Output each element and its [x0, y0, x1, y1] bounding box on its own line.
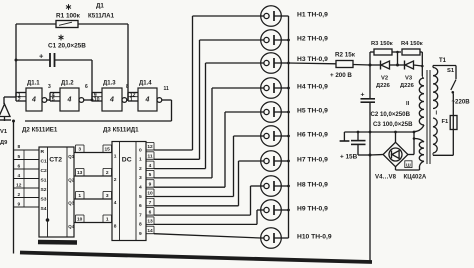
- svg-text:Q1: Q1: [68, 154, 74, 159]
- svg-text:II: II: [406, 101, 410, 107]
- wire: +15V bus / winding tap: [344, 131, 414, 133]
- svg-text:DC: DC: [122, 157, 132, 164]
- svg-text:С3 100,0×25В: С3 100,0×25В: [373, 121, 413, 128]
- wire: lamp H1 to anode bus: [281, 15, 288, 17]
- svg-text:V1: V1: [0, 129, 8, 135]
- wire: bridge right to winding riser: [408, 154, 414, 156]
- svg-text:Д1.4: Д1.4: [139, 81, 152, 87]
- junction: bus tap H3: [287, 62, 290, 65]
- wire: lamp H2 to anode bus: [281, 39, 288, 41]
- svg-text:12: 12: [16, 183, 22, 189]
- junction: C3 top tap: [357, 131, 360, 134]
- svg-text:Н2 ТН-0,9: Н2 ТН-0,9: [297, 36, 328, 43]
- svg-text:Н6 ТН-0,9: Н6 ТН-0,9: [297, 132, 328, 139]
- svg-text:+ 15В: + 15В: [340, 154, 358, 161]
- smudge bar under D2 box: [38, 240, 77, 245]
- wire: mid tap down to diode row: [397, 52, 399, 65]
- wire: bottom common ground band (thick): [20, 253, 372, 263]
- svg-text:С1: С1: [41, 159, 48, 165]
- wire: R3 to R4: [392, 51, 401, 53]
- junction: C1 tap node: [15, 59, 18, 62]
- wire: C1 right plate to coupling vertical: [55, 59, 93, 61]
- wire: to V1 anode: [3, 97, 5, 104]
- svg-text:С1 20,0×25В: С1 20,0×25В: [48, 43, 86, 50]
- terminal: +15V output bar: [340, 140, 350, 142]
- svg-text:Н1 ТН-0,9: Н1 ТН-0,9: [297, 12, 328, 19]
- svg-text:S3: S3: [41, 197, 47, 203]
- wire: long clock/feedback wire to V1 and counter bus: [25, 120, 172, 122]
- wire: common rail down to ground band: [369, 155, 371, 261]
- svg-text:8: 8: [17, 144, 20, 150]
- wire: winding II bottom lead to tap: [414, 125, 424, 132]
- neon lamp Н4 ТН-0,9: [261, 78, 282, 99]
- junction: bus tap H8: [287, 185, 290, 188]
- svg-text:СТ2: СТ2: [49, 157, 62, 164]
- svg-text:3: 3: [48, 84, 51, 90]
- svg-text:Д1.2: Д1.2: [61, 81, 74, 87]
- svg-text:S1: S1: [447, 68, 455, 74]
- svg-text:0: 0: [139, 147, 142, 153]
- svg-text:S1: S1: [41, 178, 47, 184]
- wire: coupling vertical to D1.2-D1.3 net: [91, 60, 93, 100]
- svg-text:4: 4: [114, 200, 117, 206]
- svg-text:10: 10: [77, 217, 83, 223]
- svg-text:1: 1: [114, 154, 117, 160]
- wire: feedback vertical to D1.3-D1.4 net: [127, 24, 129, 100]
- svg-text:V3: V3: [405, 76, 413, 82]
- wire: Q1 pin 3 to D3 input pin 15: [74, 152, 112, 154]
- wire: winding III bottom lead: [420, 161, 425, 166]
- junction: node B: [396, 64, 399, 67]
- svg-text:10: 10: [147, 191, 153, 197]
- asterisk above C1: [60, 35, 62, 41]
- wire: lamp H5 to anode bus: [281, 111, 288, 113]
- diode V3 D226: [404, 61, 406, 70]
- label winding III in box: [405, 161, 412, 168]
- svg-text:Д9: Д9: [0, 140, 8, 146]
- wire: lamp H9 to anode bus: [281, 209, 288, 211]
- svg-text:R4 150к: R4 150к: [401, 41, 423, 47]
- junction: bus tap H5: [287, 111, 290, 114]
- transformer winding I (primary): [433, 68, 438, 109]
- IC D3 decoder DC box: [112, 142, 146, 241]
- svg-text:Н9 ТН-0,9: Н9 ТН-0,9: [297, 206, 328, 213]
- wire: rail between tap bus and bridge node: [369, 132, 371, 155]
- svg-text:5: 5: [139, 194, 142, 200]
- wire: node C down to winding II top: [421, 66, 423, 76]
- svg-text:5: 5: [17, 154, 20, 160]
- svg-text:2: 2: [18, 97, 21, 103]
- output inversion bubble of Д1.3: [122, 98, 127, 103]
- junction: bridge top on bus: [394, 131, 397, 134]
- wire: lamp H10 to anode bus: [281, 237, 288, 239]
- wire: C3 bottom lead: [357, 144, 359, 155]
- wire: bus to R2: [289, 62, 337, 65]
- pin cell column right line: [23, 150, 25, 207]
- svg-text:V4…V8: V4…V8: [375, 174, 397, 181]
- svg-text:R3 150к: R3 150к: [371, 41, 393, 47]
- logic gate Д1.2 (NAND inverter): [60, 88, 79, 111]
- wire: D1.4 output riser down: [171, 100, 173, 121]
- svg-text:Н7 ТН-0,9: Н7 ТН-0,9: [297, 157, 328, 164]
- internal diode symbol of bridge: [391, 151, 393, 159]
- svg-text:7: 7: [149, 200, 152, 206]
- svg-text:R1 100к: R1 100к: [56, 13, 81, 20]
- wire: D3 output 2 pin 4 to lamp H3: [154, 168, 206, 170]
- wire: winding I top lead: [432, 66, 434, 68]
- svg-text:10: 10: [94, 97, 100, 103]
- wire: node A to V2: [370, 64, 381, 66]
- wire: left vertical upper: [15, 24, 17, 60]
- svg-text:Н5 ТН-0,9: Н5 ТН-0,9: [297, 108, 328, 115]
- svg-text:2: 2: [17, 192, 20, 198]
- wire: bridge bottom down: [395, 167, 397, 170]
- junction: bridge left corner node: [369, 154, 372, 157]
- svg-text:4: 4: [139, 185, 142, 191]
- fuse F1: [450, 116, 457, 130]
- svg-text:Q4: Q4: [68, 224, 74, 229]
- transformer winding II (HV): [419, 78, 424, 125]
- junction: node C: [421, 65, 424, 68]
- svg-text:4: 4: [17, 173, 20, 179]
- svg-text:5: 5: [149, 172, 152, 178]
- wire: Q2 pin 13 to D3 input pin 2: [74, 175, 112, 177]
- svg-text:9: 9: [139, 231, 142, 237]
- wire: C2 bottom to +15V net: [369, 102, 371, 132]
- svg-text:Т1: Т1: [439, 58, 447, 64]
- resistor R3 150k: [374, 49, 392, 55]
- svg-text:1: 1: [130, 97, 133, 103]
- svg-text:6: 6: [139, 203, 142, 209]
- input pins 4,5 of Д1.2: [50, 92, 60, 94]
- svg-text:11: 11: [147, 154, 152, 160]
- junction: node A: [369, 64, 372, 67]
- junction: bus tap H2: [287, 39, 290, 42]
- svg-text:3: 3: [139, 175, 142, 181]
- svg-text:~220В: ~220В: [452, 99, 471, 106]
- logic gate Д1.3 (NAND inverter): [102, 88, 122, 111]
- output inversion bubble of Д1.2: [79, 98, 84, 103]
- junction: bus tap H6: [287, 135, 290, 138]
- capacitor C1 electrolytic: [49, 53, 51, 67]
- svg-text:1: 1: [139, 157, 142, 163]
- junction: bus tap H9: [287, 209, 290, 212]
- wire: lamp H6 to anode bus: [281, 135, 288, 137]
- svg-text:С2 10,0×250В: С2 10,0×250В: [371, 111, 411, 118]
- svg-text:F1: F1: [442, 119, 450, 125]
- svg-text:С2: С2: [41, 168, 48, 174]
- wire: D3 output 1 pin 11 to lamp H2: [154, 158, 200, 160]
- svg-text:9: 9: [17, 202, 20, 208]
- wire: node A up to R3 row: [369, 52, 371, 65]
- svg-text:2: 2: [114, 177, 117, 183]
- junction: bus tap H4: [287, 87, 290, 90]
- svg-text:11: 11: [164, 86, 170, 92]
- junction: rail crossing tap bus: [369, 131, 372, 134]
- svg-text:Ш: Ш: [406, 162, 411, 167]
- wire: bridge top to +15V bus: [395, 132, 397, 142]
- wire: +15V stub down: [343, 132, 345, 141]
- wire: winding III top lead to tap riser: [414, 138, 424, 142]
- svg-text:КЦ402А: КЦ402А: [404, 174, 427, 181]
- svg-text:Q2: Q2: [68, 178, 74, 183]
- neon lamp Н5 ТН-0,9: [261, 102, 282, 123]
- junction: winding tap node: [413, 131, 416, 134]
- neon lamp Н2 ТН-0,9: [261, 30, 282, 51]
- svg-text:2: 2: [106, 170, 109, 176]
- neon lamp Н9 ТН-0,9: [261, 200, 282, 221]
- svg-text:1: 1: [78, 193, 81, 199]
- svg-text:3: 3: [106, 193, 109, 199]
- svg-text:14: 14: [147, 228, 153, 234]
- junction: C1 coupling node: [91, 99, 94, 102]
- svg-text:Н10 ТН-0,9: Н10 ТН-0,9: [297, 234, 332, 241]
- transformer winding III (LV): [419, 142, 424, 162]
- svg-text:Д1.1: Д1.1: [27, 81, 40, 87]
- neon lamp Н6 ТН-0,9: [261, 126, 282, 147]
- wire: left vertical lower to D1.1 input: [15, 60, 17, 97]
- wire: R4 right to corner: [420, 51, 422, 53]
- svg-text:R2 15к: R2 15к: [335, 52, 356, 59]
- resistor R1 100k: [56, 21, 78, 28]
- wire: fuse to winding I bottom: [452, 130, 454, 156]
- neon lamp Н7 ТН-0,9: [261, 151, 282, 172]
- wire: switch to fuse: [452, 94, 454, 116]
- wire: lamp H4 to anode bus: [281, 87, 288, 89]
- wire: node to C1 left plate: [16, 59, 50, 61]
- svg-text:Д1.3: Д1.3: [103, 81, 116, 87]
- bridge rectifier V4...V8 KTs402A diamond: [383, 142, 408, 166]
- ink blob artifact inside D2: [46, 218, 50, 222]
- wire: D3 output 6 pin 7 to lamp H7: [154, 205, 239, 207]
- wire: D2 input bus vertical down to ground band: [13, 121, 15, 254]
- transformer core lines: [426, 70, 428, 164]
- output inversion bubble of Д1.1: [42, 98, 47, 103]
- wire: bridge left to common rail: [370, 154, 383, 157]
- junction: winding III top on riser: [413, 137, 416, 140]
- wire: D3 output 3 pin 5 to lamp H4: [154, 177, 212, 179]
- wire: D1.3 out to D1.4 in: [127, 99, 128, 101]
- D3 output pin number cells: [146, 149, 154, 151]
- wire: riser to winding tap: [413, 132, 415, 155]
- wire: D1.1 out to D1.2 in: [47, 99, 50, 101]
- svg-text:8: 8: [126, 84, 129, 90]
- wire: V2 to V3: [390, 64, 405, 66]
- svg-text:4: 4: [149, 163, 152, 169]
- wire: Q4 pin 10 to D3 input pin 1: [74, 222, 112, 224]
- svg-text:5: 5: [52, 97, 55, 103]
- logic gate Д1.4 (NAND inverter): [138, 88, 157, 111]
- wire: common anode bus of lamps: [288, 16, 290, 238]
- svg-text:Н8 ТН-0,9: Н8 ТН-0,9: [297, 182, 328, 189]
- wire: D3 output 4 pin 9 to lamp H5: [154, 186, 225, 188]
- junction: R3-R4 mid top: [396, 51, 399, 54]
- svg-text:Н4 ТН-0,9: Н4 ТН-0,9: [297, 84, 328, 91]
- svg-text:9: 9: [149, 181, 152, 187]
- svg-text:Д2 К511ИЕ1: Д2 К511ИЕ1: [22, 127, 58, 134]
- svg-text:12: 12: [147, 144, 153, 150]
- svg-text:8: 8: [114, 224, 117, 230]
- svg-text:2: 2: [139, 166, 142, 172]
- svg-text:6: 6: [17, 164, 20, 170]
- logic gate Д1.1 (NAND inverter): [26, 88, 42, 111]
- asterisk selected-value mark above R1: [68, 4, 70, 10]
- output inversion bubble of Д1.4: [157, 98, 162, 103]
- svg-text:7: 7: [139, 212, 142, 218]
- svg-text:6: 6: [85, 84, 88, 90]
- wire: Q3 pin 1 to D3 input pin 3: [74, 198, 112, 200]
- neon lamp Н1 ТН-0,9: [261, 6, 282, 27]
- wire: lamp H7 to anode bus: [281, 160, 288, 162]
- resistor R2 15k: [336, 61, 353, 68]
- svg-text:S2: S2: [41, 187, 47, 193]
- wire: R2 to node A: [353, 64, 370, 67]
- svg-text:6: 6: [149, 209, 152, 215]
- svg-text:V2: V2: [381, 76, 388, 82]
- wire: bridge bottom to winding III bottom: [396, 169, 420, 171]
- svg-text:8: 8: [139, 222, 142, 228]
- diode V2 D226: [380, 61, 382, 70]
- svg-text:Д3 К511ИД1: Д3 К511ИД1: [103, 127, 139, 134]
- svg-text:+: +: [39, 52, 44, 61]
- wire: C3 bottom to common rail: [358, 154, 370, 156]
- svg-text:S4: S4: [41, 206, 47, 212]
- svg-text:Q3: Q3: [68, 201, 74, 206]
- wire: D3 output 8 pin 13 to lamp H9: [154, 223, 257, 225]
- wire: R1 to feedback vertical: [78, 23, 128, 25]
- input pins 9,10 of Д1.3: [92, 92, 102, 94]
- wire: V3 to node C: [414, 65, 423, 66]
- neon lamp Н10 ТН-0,9: [261, 228, 282, 249]
- svg-text:+ 200 В: + 200 В: [330, 72, 352, 79]
- wire: D1.1 input horizontal: [4, 96, 16, 98]
- wire: D3 output 9 pin 14 to lamp H10 (slanted): [154, 234, 261, 238]
- junction: bus tap H7: [287, 160, 290, 163]
- svg-text:R: R: [41, 149, 45, 155]
- svg-text:К511ЛА1: К511ЛА1: [88, 13, 115, 20]
- wire: node A down to C2: [369, 65, 371, 99]
- wire: D1.2 out to D1.3 in: [84, 99, 92, 101]
- wire: D3 output 7 pin 6 to lamp H8: [154, 214, 251, 216]
- wire: D3 output 0 pin 12 to lamp H1: [154, 149, 193, 151]
- svg-text:4: 4: [145, 97, 150, 104]
- svg-text:3: 3: [78, 147, 81, 153]
- wire: top feedback left segment: [16, 23, 56, 25]
- wire: lamp H3 to anode bus: [281, 62, 288, 64]
- wire: D3 output 5 pin 10 to lamp H6: [154, 196, 234, 198]
- svg-text:15: 15: [105, 147, 111, 153]
- switch S1: [451, 80, 456, 91]
- svg-text:Д226: Д226: [400, 83, 415, 89]
- svg-text:1: 1: [106, 217, 109, 223]
- svg-text:4: 4: [31, 97, 36, 104]
- IC D2 counter CT2 box: [39, 147, 74, 237]
- resistor R4 150k: [402, 49, 420, 55]
- wire: lamp H8 to anode bus: [281, 185, 288, 187]
- svg-text:+: +: [361, 92, 365, 99]
- svg-text:4: 4: [67, 97, 72, 104]
- svg-text:Н3 ТН-0,9: Н3 ТН-0,9: [297, 56, 328, 63]
- neon lamp Н8 ТН-0,9: [261, 176, 282, 197]
- svg-text:13: 13: [77, 170, 83, 176]
- junction: counter bus tap: [12, 120, 15, 123]
- input pins 1,2 of Д1.1: [16, 92, 26, 94]
- input pins 12,1 of Д1.4: [128, 92, 138, 94]
- neon lamp Н3 ТН-0,9: [261, 53, 282, 74]
- svg-text:4: 4: [109, 97, 114, 104]
- wire: D1.4 output to riser: [162, 99, 172, 101]
- svg-text:Д226: Д226: [376, 83, 391, 89]
- svg-text:Д1: Д1: [96, 3, 104, 10]
- diode V1 (D9): [0, 104, 10, 117]
- svg-text:13: 13: [147, 219, 153, 225]
